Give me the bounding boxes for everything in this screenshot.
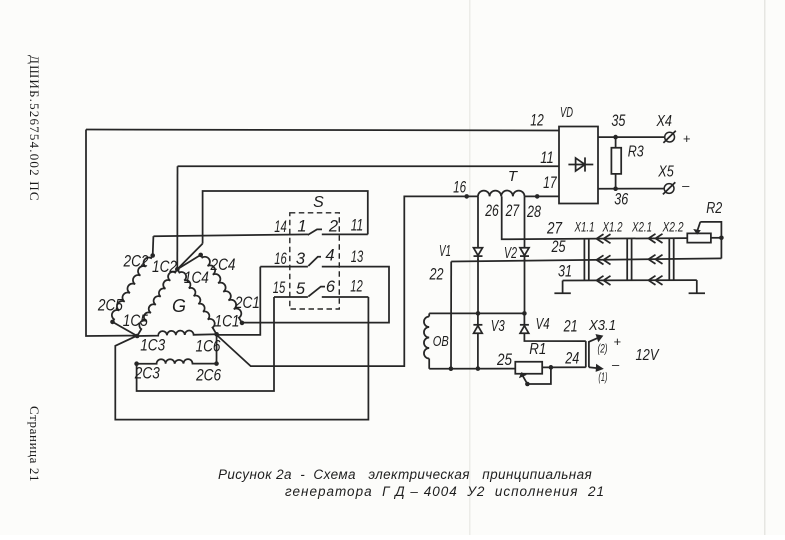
svg-text:1С4: 1С4 — [184, 269, 209, 287]
svg-text:2С4: 2С4 — [210, 256, 236, 274]
svg-text:S: S — [313, 194, 324, 211]
svg-text:14: 14 — [274, 218, 287, 236]
svg-text:2С2: 2С2 — [123, 253, 149, 271]
svg-text:генератора Г Д – 4004 У2 ис: генератора Г Д – 4004 У2 исполнения 21 — [285, 484, 605, 499]
svg-text:12: 12 — [350, 278, 363, 296]
svg-text:36: 36 — [614, 191, 629, 209]
svg-text:1С3: 1С3 — [140, 337, 166, 355]
svg-text:V1: V1 — [439, 243, 451, 260]
svg-text:V2: V2 — [504, 245, 517, 262]
svg-text:15: 15 — [273, 279, 286, 297]
svg-text:R3: R3 — [628, 144, 644, 161]
svg-text:3: 3 — [296, 250, 306, 268]
svg-text:5: 5 — [296, 280, 306, 298]
svg-text:25: 25 — [551, 238, 566, 256]
svg-text:24: 24 — [564, 350, 579, 368]
svg-text:V4: V4 — [536, 316, 550, 333]
svg-text:R1: R1 — [529, 341, 546, 358]
svg-text:1С5: 1С5 — [123, 312, 149, 330]
svg-text:12: 12 — [530, 112, 544, 130]
svg-text:X1.1: X1.1 — [574, 219, 595, 235]
svg-text:1: 1 — [297, 218, 306, 236]
svg-text:VD: VD — [560, 104, 573, 121]
svg-text:35: 35 — [611, 112, 626, 130]
svg-text:(1): (1) — [598, 370, 607, 384]
svg-text:2С1: 2С1 — [234, 294, 260, 312]
svg-text:X2.2: X2.2 — [662, 219, 684, 235]
svg-text:X1.2: X1.2 — [602, 219, 623, 235]
svg-text:28: 28 — [526, 203, 541, 221]
svg-text:R2: R2 — [706, 200, 722, 217]
svg-text:16: 16 — [274, 250, 287, 268]
svg-text:X3.1: X3.1 — [588, 318, 616, 334]
svg-text:27: 27 — [505, 202, 520, 220]
svg-text:X4: X4 — [656, 113, 673, 130]
svg-text:13: 13 — [351, 248, 364, 266]
svg-text:26: 26 — [485, 202, 500, 220]
svg-text:G: G — [172, 296, 186, 316]
svg-text:X5: X5 — [657, 164, 674, 181]
svg-text:4: 4 — [325, 247, 334, 265]
svg-text:2С5: 2С5 — [97, 297, 123, 315]
svg-text:22: 22 — [429, 266, 444, 284]
svg-text:12V: 12V — [636, 347, 660, 364]
svg-text:11: 11 — [351, 217, 364, 235]
svg-text:Рисунок 2а - Схема электри: Рисунок 2а - Схема электрическая принцип… — [218, 467, 592, 482]
svg-text:(2): (2) — [598, 342, 608, 356]
svg-text:16: 16 — [453, 179, 467, 197]
svg-text:21: 21 — [563, 318, 578, 336]
svg-text:6: 6 — [326, 278, 336, 296]
svg-text:11: 11 — [540, 149, 554, 167]
svg-text:X2.1: X2.1 — [631, 219, 652, 235]
svg-text:1С1: 1С1 — [215, 313, 240, 331]
svg-text:+: + — [683, 131, 691, 146]
svg-text:1С2: 1С2 — [152, 258, 177, 276]
svg-text:2С3: 2С3 — [134, 365, 160, 383]
svg-text:1С6: 1С6 — [196, 338, 222, 356]
svg-text:27: 27 — [546, 220, 562, 238]
svg-text:V3: V3 — [491, 318, 505, 335]
svg-text:ОВ: ОВ — [433, 334, 449, 350]
svg-text:2: 2 — [328, 218, 338, 236]
svg-text:2С6: 2С6 — [195, 367, 221, 385]
svg-text:31: 31 — [558, 263, 572, 281]
svg-text:+: + — [613, 334, 621, 349]
svg-text:–: – — [681, 178, 690, 193]
svg-text:–: – — [611, 357, 620, 372]
svg-text:17: 17 — [543, 174, 557, 192]
svg-text:25: 25 — [496, 351, 512, 369]
